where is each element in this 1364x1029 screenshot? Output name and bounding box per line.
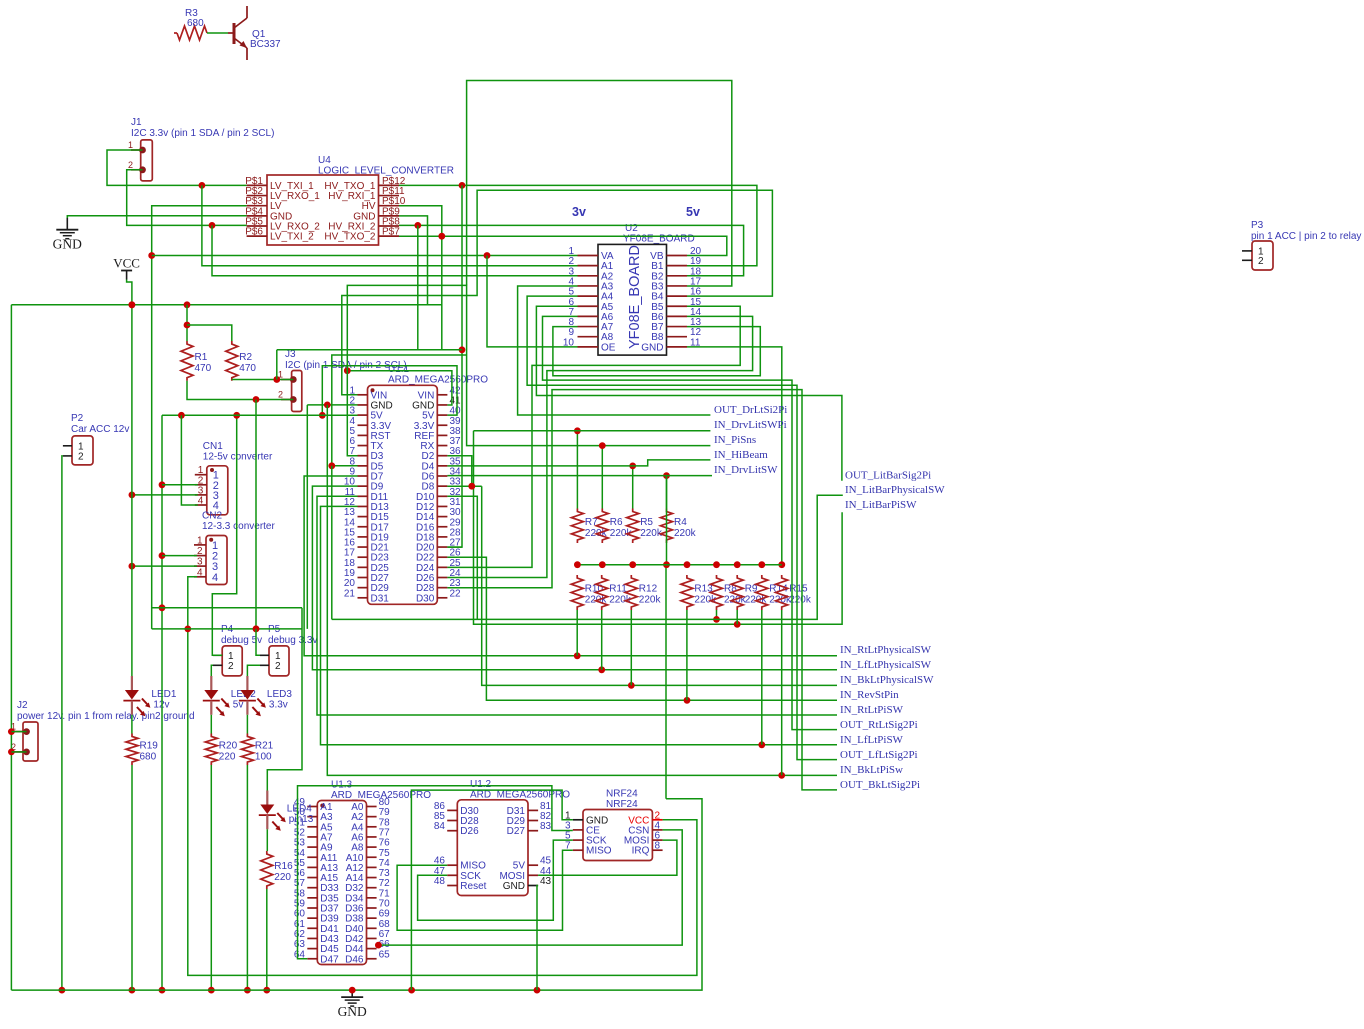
svg-text:LED3: LED3 — [267, 689, 292, 700]
svg-text:P3: P3 — [1251, 220, 1264, 231]
svg-text:D27: D27 — [507, 826, 526, 837]
svg-text:R1: R1 — [195, 352, 208, 363]
svg-text:D26: D26 — [460, 826, 479, 837]
wire R20 bottom — [210, 765, 212, 990]
svg-text:GND: GND — [503, 881, 525, 892]
svg-text:680: 680 — [140, 751, 157, 762]
wire R3-Q1 base — [207, 32, 228, 34]
wire U2 GND down to resistor bus — [687, 347, 782, 565]
wire U2 A7 staircase to B7 — [553, 327, 760, 376]
wire A2 from P$5 net — [212, 225, 578, 275]
svg-text:4: 4 — [212, 572, 218, 584]
resistor R7 — [571, 509, 583, 544]
svg-text:680: 680 — [187, 18, 204, 29]
wire CN2 pin2 — [162, 555, 197, 557]
svg-text:R2: R2 — [239, 352, 252, 363]
wire NRF CSN to U1.3 D44 — [378, 830, 682, 945]
wire CN1 pin4 up — [181, 415, 197, 505]
svg-text:IN_LfLtPiSW: IN_LfLtPiSW — [840, 734, 904, 746]
wire x473.5 col to IN_LitBarPiSW line — [474, 431, 843, 625]
svg-text:4: 4 — [197, 567, 203, 578]
svg-text:470: 470 — [195, 363, 212, 374]
wire D10 col — [447, 496, 477, 619]
svg-text:IN_LfLtPhysicalSW: IN_LfLtPhysicalSW — [840, 659, 932, 671]
wire D2 down to D8 — [447, 456, 471, 487]
wire P2 pin2 down — [62, 456, 63, 990]
svg-text:Car ACC 12v: Car ACC 12v — [71, 424, 129, 435]
svg-text:5v: 5v — [686, 205, 700, 219]
svg-text:R16: R16 — [274, 861, 293, 872]
wire U2 VA row — [152, 255, 578, 257]
wire R5 top to IN_HiBeam — [632, 466, 634, 509]
wire IN_DrvLitSW from D6 — [447, 475, 712, 477]
svg-text:D30: D30 — [416, 593, 435, 604]
LED LED3 — [246, 676, 248, 690]
svg-text:IRQ: IRQ — [632, 846, 650, 857]
wire J2 pin1 — [11, 731, 26, 733]
svg-text:4: 4 — [198, 496, 204, 507]
wire NRF GND to bus — [411, 790, 572, 990]
wire x307.3 col to 3.3 rail — [306, 405, 308, 629]
svg-text:R21: R21 — [255, 740, 274, 751]
wire U2 A4 staircase — [527, 296, 837, 759]
wire U2 B6 to D26 — [447, 316, 752, 577]
svg-text:U1.2: U1.2 — [470, 779, 492, 790]
svg-text:R4: R4 — [674, 517, 687, 528]
wire D13 to IN_LfLtPiSW — [321, 506, 838, 744]
wire y349.8 horizontal — [277, 349, 462, 351]
resistor R5 — [627, 509, 639, 544]
wire y349.8 line — [276, 350, 278, 380]
svg-text:GND: GND — [53, 237, 82, 252]
resistor R19 — [126, 734, 138, 766]
wire D5 line to IN_PiSns col — [332, 355, 467, 466]
svg-text:D46: D46 — [345, 954, 364, 965]
svg-text:12-5v converter: 12-5v converter — [203, 451, 273, 462]
wire J3pin2 down to 3.3 rail — [255, 400, 257, 629]
wire 5V rail — [162, 414, 358, 416]
wire R4 column — [665, 476, 668, 799]
wire LED4 to R16 — [266, 829, 268, 851]
svg-text:YF08E_BOARD: YF08E_BOARD — [627, 245, 643, 349]
wire R12 bottom — [630, 610, 632, 685]
wire D9 to IN_LfLtPhysicalSW — [312, 486, 837, 670]
wire D3 via GND41 line — [347, 371, 452, 405]
wire U1.2 GND43 to bus — [537, 886, 538, 991]
wire R9 bottom — [736, 610, 738, 624]
wire CN1 pin3 to VCC col — [132, 494, 198, 496]
svg-text:pin13: pin13 — [289, 814, 314, 825]
svg-text:CN2: CN2 — [202, 511, 222, 522]
wire NRF MISO to U1.2 MISO — [397, 850, 573, 930]
wire x11.4 col — [10, 305, 12, 990]
resistor R12 — [625, 575, 637, 610]
wire R19 bottom — [131, 765, 133, 990]
wire NRF SCK to U1.2 SCK — [418, 840, 573, 920]
svg-text:2: 2 — [1258, 256, 1264, 267]
svg-text:GND: GND — [641, 342, 663, 353]
svg-text:Reset: Reset — [460, 881, 486, 892]
svg-text:R20: R20 — [219, 740, 238, 751]
resistor R20 — [205, 734, 217, 766]
wire IN_HiBeam from D4 — [447, 460, 710, 466]
wire J3 pin2 to R1 — [187, 381, 293, 400]
wire U4 P$10 HV to VCC line — [399, 206, 442, 350]
wire R16 bottom — [266, 889, 268, 990]
wire U2 A5 staircase — [536, 306, 842, 481]
resistor R1 — [181, 341, 193, 381]
svg-text:2: 2 — [228, 661, 234, 672]
resistor R13 — [681, 575, 693, 610]
wire U4 P$3 LV down — [152, 206, 247, 629]
svg-text:BC337: BC337 — [250, 39, 281, 50]
svg-text:3: 3 — [197, 557, 203, 568]
svg-text:LV_TXI_2: LV_TXI_2 — [270, 232, 314, 243]
resistor R6 — [596, 509, 608, 544]
LED LED4 — [266, 791, 268, 805]
wire U1.1 GND2 line — [307, 404, 357, 406]
svg-text:NRF24: NRF24 — [606, 789, 638, 800]
svg-text:83: 83 — [540, 821, 552, 832]
wire R6 top to IN_PiSns — [601, 446, 603, 509]
resistor R16 — [261, 851, 273, 889]
wire U4 P$9 to VCC line — [399, 216, 428, 305]
svg-text:P$6: P$6 — [245, 227, 263, 238]
svg-text:VCC: VCC — [113, 256, 140, 271]
wire R21 bottom — [246, 765, 248, 990]
resistor R11 — [596, 575, 608, 610]
svg-text:P2: P2 — [71, 413, 84, 424]
resistor R2 — [226, 341, 238, 381]
LED LED2 — [210, 676, 212, 690]
svg-text:U4: U4 — [318, 155, 331, 166]
svg-text:100: 100 — [255, 751, 272, 762]
wire R14 bottom — [761, 610, 763, 745]
svg-text:ARD_MEGA2560PRO: ARD_MEGA2560PRO — [388, 375, 488, 386]
wire VCC rail horizontal — [11, 304, 441, 306]
svg-text:P$7: P$7 — [382, 227, 400, 238]
wire D3 up to IN_PiSns chain — [347, 285, 710, 455]
svg-text:R12: R12 — [639, 584, 658, 595]
svg-text:HV_TXO_2: HV_TXO_2 — [324, 232, 376, 243]
svg-text:J3: J3 — [285, 349, 296, 360]
resistor R21 — [241, 734, 253, 766]
svg-text:220k: 220k — [639, 595, 662, 606]
wire D20 link — [447, 546, 462, 548]
wire D8 col to IN_BkLtPhysicalSW — [482, 486, 837, 685]
svg-text:LED1: LED1 — [151, 689, 176, 700]
svg-text:OUT_BkLtSig2Pi: OUT_BkLtSig2Pi — [840, 779, 920, 791]
svg-text:IN_RtLtPhysicalSW: IN_RtLtPhysicalSW — [840, 644, 932, 656]
wire x302 col to LED4 — [267, 608, 302, 791]
svg-text:220k: 220k — [640, 528, 663, 539]
wire CN2 pin4 to NRF VCC rail — [188, 577, 697, 976]
svg-text:12-3.3 converter: 12-3.3 converter — [202, 521, 275, 532]
wire U2 OE to VA — [487, 256, 578, 347]
svg-text:22: 22 — [450, 588, 462, 599]
svg-text:I2C 3.3v (pin 1 SDA / pin 2 SC: I2C 3.3v (pin 1 SDA / pin 2 SCL) — [131, 128, 274, 139]
wire P5 pin2 to LED3 — [247, 665, 260, 676]
svg-text:IN_DrvLitSW: IN_DrvLitSW — [714, 464, 778, 476]
svg-text:J2: J2 — [17, 700, 28, 711]
svg-text:debug 3.3v: debug 3.3v — [268, 635, 318, 646]
resistor R14 — [756, 575, 768, 610]
wire resistor mid bus — [577, 564, 781, 566]
svg-text:3.3v: 3.3v — [269, 700, 288, 711]
svg-text:1: 1 — [197, 535, 203, 546]
wire D22 to IN_RevStPin — [447, 557, 837, 700]
wire U2 A6 staircase — [543, 316, 838, 729]
svg-text:65: 65 — [379, 949, 391, 960]
svg-text:power 12v. pin 1 from relay. p: power 12v. pin 1 from relay. pin2 ground — [17, 711, 195, 722]
wire P5 pin1 to 3.3 rail — [256, 629, 260, 655]
svg-text:2: 2 — [275, 661, 281, 672]
svg-text:3v: 3v — [572, 205, 586, 219]
wire R13 bottom — [686, 610, 688, 700]
svg-text:2: 2 — [197, 546, 203, 557]
wire y619.4 line to IN_LitBarPhysicalSW — [332, 495, 843, 619]
svg-text:OUT_DrLtSi2Pi: OUT_DrLtSi2Pi — [714, 404, 787, 416]
wire R7 top to IN_DrvLitSWPi — [576, 431, 578, 509]
svg-text:470: 470 — [239, 363, 256, 374]
wire big rectangle to U2 B3 — [467, 81, 732, 287]
wire bottom bus — [11, 799, 702, 990]
transistor Q1 BC337 — [228, 32, 234, 34]
resistor R15 — [776, 575, 788, 610]
wire R8 bottom — [716, 610, 718, 619]
svg-text:8: 8 — [655, 841, 661, 852]
wire 5V rail to P4 pin1 — [212, 415, 236, 655]
wire D8 ext — [447, 485, 481, 487]
svg-text:R6: R6 — [610, 517, 623, 528]
wire U4 P$8 to U2 B2 — [399, 225, 744, 275]
svg-text:IN_BkLtPiSw: IN_BkLtPiSw — [840, 764, 903, 776]
svg-text:IN_RtLtPiSW: IN_RtLtPiSW — [840, 704, 904, 716]
wire U1.1 5V40 to 5V rail — [322, 366, 457, 416]
wire R10 bottom — [576, 610, 578, 656]
svg-text:OUT_LfLtSig2Pi: OUT_LfLtSig2Pi — [840, 749, 918, 761]
wire R11 bottom — [601, 610, 603, 670]
svg-text:2: 2 — [278, 390, 283, 400]
svg-text:48: 48 — [434, 876, 446, 887]
svg-text:LED4: LED4 — [287, 804, 312, 815]
svg-text:2: 2 — [128, 160, 133, 170]
resistor R9 — [731, 575, 743, 610]
wire CN2 pin3 to VCC col — [132, 565, 197, 567]
wire VCC col low segment — [131, 715, 133, 734]
wire U1.3 D47 to NRF CE — [298, 786, 573, 959]
wire D11 to IN_RtLtPiSW — [317, 496, 837, 715]
wire LED3 chain — [246, 715, 248, 734]
svg-text:21: 21 — [344, 588, 356, 599]
wire x327.3 col to IN_BkLtPiSw — [327, 405, 837, 776]
svg-text:IN_HiBeam: IN_HiBeam — [714, 449, 768, 461]
svg-text:R5: R5 — [640, 517, 653, 528]
wire J1 pin1 to U4 P$1 / LV_TXI_1 — [107, 150, 247, 185]
ground symbol bottom — [351, 990, 353, 997]
svg-text:YF08E_BOARD: YF08E_BOARD — [623, 234, 695, 245]
svg-text:220: 220 — [274, 872, 291, 883]
svg-text:2: 2 — [78, 451, 84, 462]
wire x417.8 column — [417, 225, 419, 349]
LED LED1 — [131, 676, 133, 690]
wire U2 B4 to U1.1 VIN — [342, 190, 773, 394]
svg-text:IN_LitBarPhysicalSW: IN_LitBarPhysicalSW — [845, 484, 945, 496]
svg-text:IN_PiSns: IN_PiSns — [714, 434, 756, 446]
svg-text:CN1: CN1 — [203, 441, 223, 452]
wire U4 P$12 to U2 B1 — [399, 185, 757, 265]
svg-text:IN_LitBarPiSW: IN_LitBarPiSW — [845, 499, 917, 511]
svg-text:84: 84 — [434, 821, 446, 832]
wire U2 B5 to D24 — [447, 306, 740, 567]
svg-text:220k: 220k — [674, 528, 697, 539]
svg-text:D47: D47 — [320, 954, 339, 965]
wire D28 to OUT_BkLtSig2Pi — [447, 390, 837, 790]
wire NRF MOSI to U1.2 MOSI — [538, 840, 677, 875]
svg-text:IN_DrvLitSWPi: IN_DrvLitSWPi — [714, 419, 787, 431]
wire R4 top to IN_DrvLitSW — [666, 476, 668, 509]
svg-text:OUT_LitBarSig2Pi: OUT_LitBarSig2Pi — [845, 470, 931, 482]
wire J2 pin2 — [11, 751, 26, 753]
svg-text:220: 220 — [219, 751, 236, 762]
wire 5V rail col x162 — [161, 415, 163, 990]
svg-text:J1: J1 — [131, 117, 142, 128]
wire IN_DrvLitSWPi line — [474, 430, 711, 432]
svg-text:R19: R19 — [140, 740, 159, 751]
wire U2 A3 staircase to OUT_DrLtSi2Pi — [518, 286, 711, 415]
resistor R4 — [661, 509, 673, 544]
wire LED2 chain — [210, 715, 212, 734]
wire x331.8 col down — [331, 466, 333, 620]
wire R15 bottom — [781, 610, 783, 775]
wire CN1 pin2 — [162, 484, 198, 486]
ground symbol top-left — [66, 218, 68, 230]
wire y607.8 rail — [152, 607, 302, 609]
resistor R10 — [571, 575, 583, 610]
svg-text:D31: D31 — [371, 593, 390, 604]
svg-text:IN_RevStPin: IN_RevStPin — [840, 689, 899, 701]
wire P4 pin2 to LED2 — [211, 665, 213, 676]
wire J1 pin2 to U4 P$5 — [127, 170, 247, 226]
resistor R3 — [174, 32, 177, 34]
wire R1 top link — [186, 305, 188, 341]
wire D7 to IN_RtLtPhysicalSW — [304, 476, 837, 656]
wire R2 top — [187, 325, 232, 341]
svg-text:1: 1 — [128, 140, 133, 150]
svg-text:NRF24: NRF24 — [606, 799, 638, 810]
svg-text:GND: GND — [338, 1004, 367, 1019]
svg-text:ARD_MEGA2560PRO: ARD_MEGA2560PRO — [470, 790, 570, 801]
wire GND to U4 P$4 — [67, 216, 246, 218]
svg-text:OE: OE — [601, 342, 616, 353]
svg-text:IN_BkLtPhysicalSW: IN_BkLtPhysicalSW — [840, 674, 934, 686]
resistor R8 — [711, 575, 723, 610]
svg-text:OUT_RtLtSig2Pi: OUT_RtLtSig2Pi — [840, 719, 918, 731]
wire x462 column — [447, 185, 462, 547]
wire VCC stem — [127, 280, 132, 677]
wire U4 P$7 to U2 VB — [399, 236, 727, 255]
wire A1 from P$1 net — [202, 185, 578, 265]
wire 3.3v rail — [152, 628, 302, 630]
wire J3 pin1 R2 up-line — [232, 379, 293, 381]
svg-text:43: 43 — [540, 876, 552, 887]
svg-text:MISO: MISO — [586, 846, 612, 857]
